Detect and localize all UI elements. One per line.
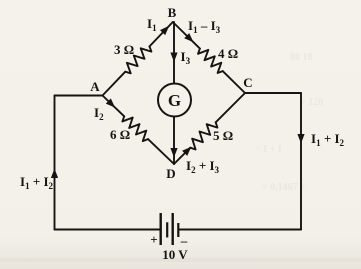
svg-text:+: + bbox=[150, 232, 157, 247]
current label I2 bbox=[94, 105, 104, 122]
value label 3 ohm bbox=[114, 42, 134, 57]
current label I1 minus I3 bbox=[188, 18, 221, 35]
svg-text:4 Ω: 4 Ω bbox=[218, 46, 238, 61]
wire bottom left to battery bbox=[55, 229, 161, 231]
arrowhead I3 down bbox=[170, 53, 177, 63]
value label 4 ohm bbox=[218, 46, 238, 61]
battery minus sign bbox=[180, 233, 188, 248]
svg-text:G: G bbox=[168, 91, 181, 110]
svg-text:= 0.1467 +: = 0.1467 + bbox=[262, 182, 306, 193]
arrowhead right wire down bbox=[297, 134, 304, 144]
wire B to galvanometer bbox=[173, 22, 175, 84]
galvanometer U1 circle bbox=[158, 84, 191, 117]
node label A bbox=[90, 79, 100, 94]
svg-text:I1 + I2: I1 + I2 bbox=[20, 174, 54, 191]
wire battery to bottom right corner bbox=[179, 229, 302, 231]
resistor R3 6ohm branch A-D bbox=[103, 96, 175, 165]
arrowhead I2 from A bbox=[106, 98, 115, 107]
svg-text:I2 + I3: I2 + I3 bbox=[186, 158, 220, 175]
value label 6 ohm bbox=[110, 127, 130, 142]
svg-text:A: A bbox=[90, 79, 100, 94]
current label I1 plus I2 right bbox=[311, 131, 345, 148]
current label I2 plus I3 bbox=[186, 158, 220, 175]
svg-text:6 Ω: 6 Ω bbox=[110, 127, 130, 142]
svg-text:10 V: 10 V bbox=[162, 247, 188, 262]
wire right vertical bbox=[300, 93, 302, 230]
battery value 10 V bbox=[162, 247, 188, 262]
bottom shadow streak bbox=[0, 258, 361, 262]
wire A to left corner bbox=[55, 95, 103, 97]
svg-text:= 120: = 120 bbox=[300, 97, 323, 108]
galvanometer letter G bbox=[168, 91, 181, 110]
current label I1 plus I2 left bbox=[20, 174, 54, 191]
svg-text:B: B bbox=[168, 5, 177, 20]
resistor R2 4ohm branch B-C bbox=[173, 22, 245, 93]
svg-text:3 Ω: 3 Ω bbox=[114, 42, 134, 57]
arrowhead I1-I3 toward C bbox=[184, 33, 193, 42]
value label 5 ohm bbox=[213, 128, 233, 143]
arrowhead into D bbox=[170, 148, 177, 158]
arrowhead I1 toward B bbox=[160, 26, 169, 35]
svg-text:80 18: 80 18 bbox=[290, 52, 313, 63]
node label D bbox=[166, 166, 175, 181]
resistor R4 5ohm branch D-C bbox=[174, 93, 245, 164]
node label B bbox=[168, 5, 177, 20]
svg-text:= I + I: = I + I bbox=[255, 144, 282, 155]
resistor R1 3ohm branch A-B bbox=[103, 22, 173, 96]
arrowhead I2+I3 from D bbox=[182, 147, 191, 156]
battery plus sign bbox=[150, 232, 157, 247]
svg-text:C: C bbox=[243, 75, 252, 90]
faint page bleed-through text bbox=[30, 52, 323, 263]
current label I1 bbox=[147, 16, 157, 33]
svg-text:5 Ω: 5 Ω bbox=[213, 128, 233, 143]
svg-text:–: – bbox=[180, 233, 188, 248]
wire galvanometer to D bbox=[173, 117, 175, 165]
wire right corner to C bbox=[245, 92, 301, 94]
wire left vertical bbox=[54, 96, 56, 230]
node label C bbox=[243, 75, 252, 90]
svg-text:I1 + I2: I1 + I2 bbox=[311, 131, 345, 148]
arrowhead left wire up bbox=[51, 169, 58, 179]
current label I3 bbox=[181, 49, 191, 66]
battery BT1 10V bbox=[161, 213, 179, 245]
svg-text:D: D bbox=[166, 166, 175, 181]
